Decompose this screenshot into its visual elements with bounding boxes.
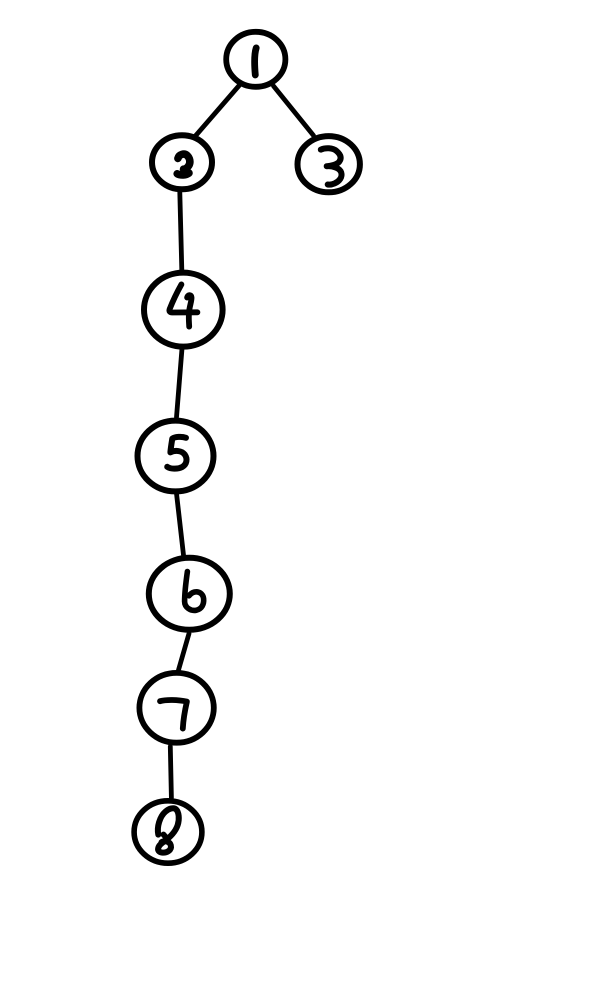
wire: edge 6-7 <box>179 634 190 671</box>
node 4 <box>144 273 223 347</box>
wire: edge 2-4 <box>180 192 182 270</box>
wire: edge 1-3 <box>274 86 314 136</box>
node 6 <box>149 558 230 630</box>
wire: edge 7-8 <box>170 747 171 798</box>
node 8 <box>134 801 202 863</box>
node 5 <box>138 421 214 492</box>
node 1 <box>226 32 285 87</box>
node 7 <box>139 673 213 743</box>
node 3 <box>298 136 360 192</box>
node 2 <box>152 135 212 189</box>
wire: edge 5-6 <box>177 494 184 556</box>
wire: edge 1-2 <box>195 85 241 138</box>
wire: edge 4-5 <box>177 349 183 418</box>
